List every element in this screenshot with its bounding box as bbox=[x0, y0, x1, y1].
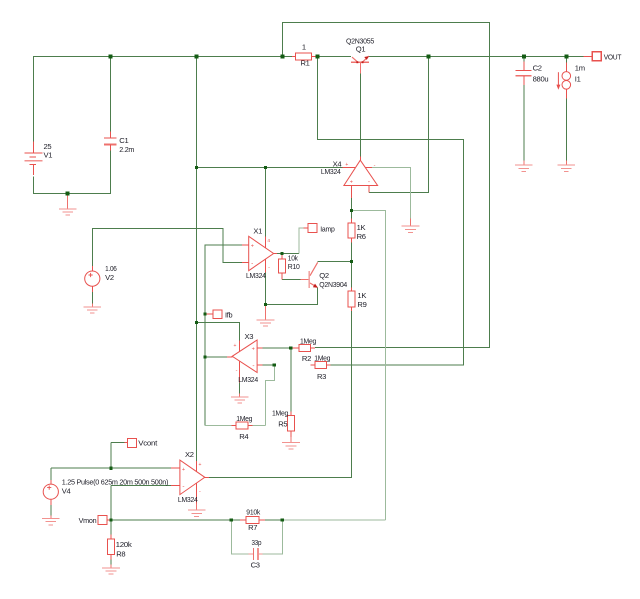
junction: V1/C1 ground node bbox=[66, 192, 70, 196]
svg-text:R7: R7 bbox=[248, 523, 257, 532]
resistor R9 bbox=[351, 288, 353, 292]
svg-text:+: + bbox=[182, 467, 185, 473]
wire: X3 + input to R2/R5 node bbox=[263, 348, 291, 412]
wire: Vcont port branch bbox=[111, 443, 125, 469]
wire: supply branch to X3 V+ bbox=[197, 323, 240, 341]
op-amp X1 supply pin stubs bbox=[265, 237, 267, 250]
svg-text:+: + bbox=[350, 179, 353, 185]
svg-text:2.2m: 2.2m bbox=[119, 145, 134, 154]
junction: X3 + input node bbox=[289, 346, 292, 349]
svg-text:+: + bbox=[234, 343, 237, 349]
junction: X3 output node bbox=[203, 355, 206, 358]
wire: Vmon node to R7 left bbox=[111, 519, 240, 521]
capacitor C3 bbox=[249, 548, 263, 560]
wire: R4 feedback jog bbox=[205, 365, 274, 426]
ground: X4 V- bbox=[410, 219, 412, 227]
junction: rail R1 left bbox=[281, 55, 285, 59]
svg-text:LM324: LM324 bbox=[246, 271, 266, 280]
svg-text:R1: R1 bbox=[301, 59, 310, 68]
wire: Q1 emitter to VOUT rail bbox=[369, 56, 584, 58]
svg-text:-: - bbox=[199, 488, 201, 494]
op-amp X4 input pin stubs bbox=[351, 186, 353, 199]
svg-text:-: - bbox=[374, 163, 376, 169]
svg-text:1Meg: 1Meg bbox=[300, 336, 316, 345]
svg-text:R2: R2 bbox=[302, 354, 311, 363]
wire: V1/C1 bottom to ground node bbox=[34, 151, 111, 194]
wire: top bypass loop from R1 left to R2 right bbox=[283, 23, 490, 348]
resistor R5 bbox=[290, 412, 292, 416]
svg-text:VOUT: VOUT bbox=[604, 52, 622, 61]
op-amp X3 input pin stubs bbox=[257, 347, 262, 349]
svg-text:910k: 910k bbox=[246, 507, 260, 516]
wire: R10 bottom to Q2 base bbox=[282, 279, 301, 281]
resistor R10 bbox=[281, 254, 283, 259]
op-amp X4 output stub bbox=[360, 157, 362, 161]
resistor R7 bbox=[240, 519, 246, 521]
svg-text:Iamp: Iamp bbox=[320, 225, 334, 234]
svg-text:1K: 1K bbox=[357, 291, 366, 300]
voltage source V4 bbox=[43, 480, 58, 505]
wire: supply branch to X4 V+ bbox=[197, 167, 343, 169]
svg-text:LM324: LM324 bbox=[178, 495, 198, 504]
ground: below C2 bbox=[523, 161, 525, 166]
wire: X2 output to R9 bottom loop bbox=[209, 477, 352, 479]
wire: X1 + input / Ifb / X3 output vertical bbox=[205, 245, 242, 426]
svg-text:-: - bbox=[236, 368, 238, 374]
capacitor C1 bbox=[104, 132, 116, 151]
wire: R9 top bbox=[351, 262, 353, 288]
junction: X1 V- / Q2 emitter node bbox=[264, 303, 267, 306]
capacitor C2 bbox=[516, 62, 532, 86]
ground: below V4 bbox=[50, 515, 52, 518]
wire: Q2 collector to R6/R9 node bbox=[318, 261, 352, 263]
wire: V2 bottom bbox=[91, 292, 93, 304]
svg-text:880u: 880u bbox=[533, 75, 549, 84]
wire: X4 inverting input to VOUT rail bbox=[369, 57, 429, 193]
junction: rail C1 tap bbox=[109, 55, 113, 59]
ground: V1/C1 node bbox=[67, 195, 69, 209]
junction: X1 output node bbox=[280, 252, 283, 255]
op-amp X2 supply pin stubs bbox=[196, 461, 198, 472]
junction: VOUT rail C2 tap bbox=[522, 55, 526, 59]
wire: R1 right sense run to R3 right bbox=[318, 57, 464, 366]
wire: I1 branch bbox=[565, 57, 567, 161]
transistor Q2 bbox=[301, 262, 318, 288]
op-amp U X4 triangle bbox=[344, 160, 378, 185]
svg-text:R4: R4 bbox=[239, 432, 248, 441]
ground: X1/Q2 node bbox=[265, 306, 267, 320]
svg-text:1Meg: 1Meg bbox=[236, 414, 252, 423]
svg-text:C2: C2 bbox=[533, 63, 542, 72]
svg-text:R3: R3 bbox=[317, 372, 326, 381]
op-amp U X1 triangle bbox=[249, 236, 274, 270]
svg-text:R10: R10 bbox=[288, 262, 300, 271]
svg-text:V1: V1 bbox=[44, 150, 53, 159]
ground: below R8 bbox=[110, 565, 112, 569]
svg-text:+: + bbox=[252, 347, 255, 353]
svg-text:X1: X1 bbox=[253, 226, 262, 235]
wire: C2 branch bbox=[523, 57, 525, 161]
svg-text:4: 4 bbox=[267, 238, 270, 244]
svg-text:1.25 Pulse(0 625m 20m 500n 500: 1.25 Pulse(0 625m 20m 500n 500n) bbox=[62, 477, 169, 486]
ground: X3 V- bbox=[239, 394, 241, 398]
junction: Vmon node bbox=[109, 518, 112, 521]
svg-text:LM324: LM324 bbox=[321, 167, 341, 176]
resistor R1 bbox=[292, 56, 296, 58]
port Vcont bbox=[124, 442, 127, 444]
svg-text:+: + bbox=[198, 462, 201, 468]
junction: supply to X1 node bbox=[264, 166, 267, 169]
resistor R8 bbox=[110, 535, 112, 539]
junction: R7 right node bbox=[281, 518, 284, 521]
junction: VOUT rail I1 tap bbox=[564, 55, 568, 59]
wire: C1 top branch bbox=[110, 57, 112, 133]
battery V1 bbox=[24, 142, 42, 176]
wire: X1 V- to ground node bbox=[265, 273, 267, 305]
op-amp X3 output stub bbox=[227, 356, 232, 358]
op-amp U X2 triangle bbox=[180, 460, 205, 495]
wire: op-amp V+ supply vertical bbox=[196, 57, 198, 462]
wire: X4 output to Q1 base bbox=[360, 74, 362, 158]
wire: R7 right to feedback riser bbox=[265, 519, 283, 521]
resistor R4 bbox=[232, 425, 237, 427]
op-amp X2 output stub bbox=[205, 477, 209, 479]
junction: supply to X3 node bbox=[195, 321, 198, 324]
wire: V2 to X1 - input bbox=[92, 229, 242, 267]
ground: below I1 bbox=[565, 161, 567, 166]
wire: X4 + node over to R7 node (long vertical) bbox=[352, 211, 386, 521]
resistor R6 bbox=[351, 219, 353, 224]
wire: X3 output stub bbox=[205, 356, 227, 358]
svg-text:1.06: 1.06 bbox=[105, 264, 117, 273]
wire: C3 loop bbox=[231, 520, 282, 554]
junction: Ifb node bbox=[203, 312, 206, 315]
svg-text:R6: R6 bbox=[357, 232, 366, 241]
svg-text:LM324: LM324 bbox=[238, 375, 258, 384]
svg-text:120k: 120k bbox=[116, 540, 133, 549]
wire: X1 V+ supply bbox=[265, 168, 267, 237]
svg-text:V2: V2 bbox=[105, 273, 114, 282]
op-amp X2 input pin stubs bbox=[171, 467, 180, 469]
resistor R3 bbox=[311, 364, 316, 366]
resistor R2 bbox=[291, 347, 299, 349]
port Iamp bbox=[304, 227, 309, 229]
port VOUT bbox=[584, 56, 593, 58]
wire: R9 bottom to X2 output loop bbox=[209, 311, 352, 478]
ground: X2 V- bbox=[196, 504, 198, 511]
svg-text:R8: R8 bbox=[116, 549, 125, 558]
wire: X3 V- to ground bbox=[239, 383, 241, 394]
svg-text:1: 1 bbox=[302, 42, 306, 51]
port Vmon bbox=[107, 519, 111, 521]
junction: rail R1 right bbox=[316, 55, 320, 59]
wire: X1 output node bbox=[277, 253, 299, 255]
junction: R7 left node bbox=[230, 518, 233, 521]
junction: supply to X4 node bbox=[195, 166, 198, 169]
svg-text:-: - bbox=[252, 363, 254, 370]
junction: X4 + input node bbox=[350, 209, 353, 212]
svg-text:X2: X2 bbox=[185, 450, 194, 459]
svg-text:C3: C3 bbox=[251, 561, 260, 570]
op-amp U X3 triangle bbox=[232, 340, 257, 373]
junction: VOUT rail X4 tap bbox=[427, 55, 431, 59]
wire: X4 noninverting input down to node bbox=[351, 198, 353, 211]
svg-text:V4: V4 bbox=[62, 487, 71, 496]
junction: Vcont node bbox=[109, 467, 112, 470]
wire: Iamp port riser bbox=[299, 228, 303, 254]
svg-text:R5: R5 bbox=[278, 420, 287, 429]
wire: V4 bottom bbox=[50, 505, 52, 515]
svg-text:Q2: Q2 bbox=[319, 271, 329, 280]
wire: R1 right to Q1 collector bbox=[316, 56, 351, 58]
svg-text:-: - bbox=[182, 483, 184, 490]
wire: R6 connections bbox=[351, 211, 353, 262]
svg-text:+: + bbox=[251, 244, 254, 250]
op-amp X1 input pin stubs bbox=[242, 244, 249, 246]
wire: R8 top and bottom bbox=[110, 520, 112, 565]
svg-text:Vmon: Vmon bbox=[79, 516, 97, 525]
wire: Q2 emitter to ground node bbox=[266, 288, 318, 305]
svg-text:1m: 1m bbox=[575, 63, 585, 72]
svg-text:I1: I1 bbox=[575, 74, 581, 83]
svg-text:33p: 33p bbox=[252, 538, 262, 547]
op-amp X3 supply pin stubs bbox=[239, 341, 241, 353]
current source I1 bbox=[556, 63, 570, 99]
svg-text:Q2N3904: Q2N3904 bbox=[319, 280, 347, 289]
svg-text:-: - bbox=[251, 260, 253, 267]
wire: X3 - input to R3 node bbox=[263, 364, 275, 366]
op-amp X1 output stub bbox=[273, 253, 277, 255]
svg-text:1Meg: 1Meg bbox=[314, 353, 330, 362]
svg-text:Ifb: Ifb bbox=[225, 310, 232, 319]
svg-text:R9: R9 bbox=[357, 300, 366, 309]
svg-text:-: - bbox=[268, 265, 270, 271]
svg-text:+: + bbox=[345, 162, 348, 168]
svg-text:1Meg: 1Meg bbox=[272, 408, 288, 417]
ground: below V2 bbox=[91, 304, 93, 308]
svg-text:-: - bbox=[368, 179, 370, 186]
svg-text:1K: 1K bbox=[357, 223, 366, 232]
svg-text:C1: C1 bbox=[119, 136, 128, 145]
ground: below R5 bbox=[290, 437, 292, 443]
wire: V4 to X2 + input bbox=[51, 468, 171, 480]
wire: X4 V- to ground bbox=[372, 168, 411, 219]
op-amp X4 supply pin stubs bbox=[343, 167, 355, 169]
svg-text:Q1: Q1 bbox=[356, 45, 366, 54]
junction: rail supply tap bbox=[195, 55, 199, 59]
svg-text:X3: X3 bbox=[245, 332, 254, 341]
wire: V1/C1 positive rail to R1 bbox=[34, 57, 293, 142]
svg-text:Vcont: Vcont bbox=[138, 439, 158, 448]
port Ifb bbox=[205, 313, 213, 315]
wire: X2 - input to Vmon node bbox=[111, 485, 171, 520]
voltage source V2 bbox=[85, 266, 100, 292]
junction: X3 - input node bbox=[273, 363, 276, 366]
transistor Q1 bbox=[351, 56, 369, 73]
junction: R6/R9/Q2 node bbox=[350, 260, 353, 263]
